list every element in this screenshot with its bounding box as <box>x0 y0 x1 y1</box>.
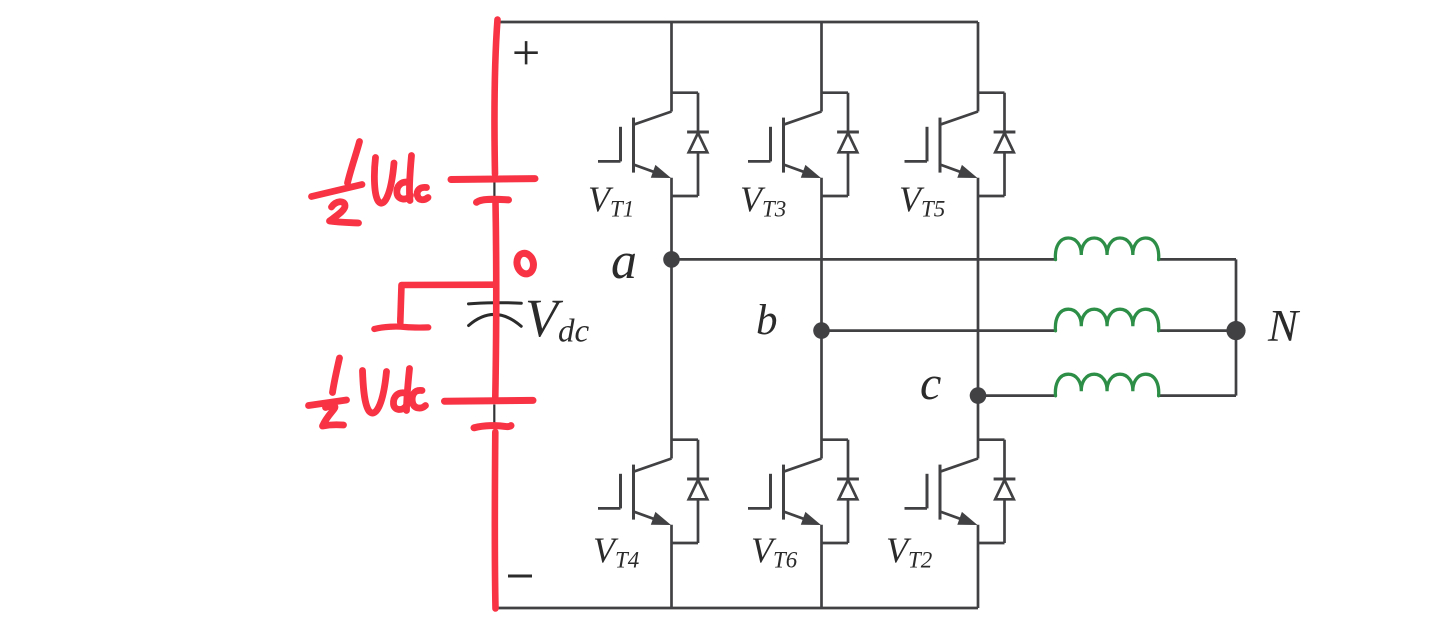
svg-text:b: b <box>756 297 778 344</box>
wire: leg b from upper IGBT emitter through node b to lower IGBT collector <box>820 178 823 459</box>
wire: right vertical joining three phases at node N <box>1235 259 1238 395</box>
wire: top jog from leg to diode of VT6 <box>822 438 849 441</box>
transistor VT4 (IGBT) <box>598 459 672 526</box>
wire: leg b from top rail to upper IGBT collector <box>820 22 823 112</box>
wire: bottom DC- rail <box>496 607 978 610</box>
wire: phase a output from node a to inductor <box>672 258 1056 261</box>
wire: leg c from lower IGBT emitter to bottom rail <box>977 525 980 608</box>
capacitor C1 remnant line (upper DC-link half) <box>493 183 495 197</box>
wire: bottom jog from diode to leg of VT6 <box>822 542 849 545</box>
wire: bottom jog from diode to leg of VT1 <box>672 195 699 198</box>
wire: bottom jog from diode to leg of VT4 <box>672 542 699 545</box>
wire: phase b from inductor to node N <box>1159 329 1236 332</box>
node N (neutral junction dot) <box>1226 321 1245 340</box>
capacitor Vdc (DC-link, curved plate symbol) <box>469 303 522 327</box>
wire: top jog from leg to diode of VT1 <box>672 91 699 94</box>
svg-text:VT5: VT5 <box>899 179 945 222</box>
wire: top jog from leg to diode of VT5 <box>978 91 1005 94</box>
wire: top jog from leg to diode of VT4 <box>672 438 699 441</box>
wire: bottom jog from diode to leg of VT3 <box>822 195 849 198</box>
transistor VT3 (IGBT) <box>748 112 822 179</box>
svg-text:VT1: VT1 <box>588 179 634 222</box>
diode D1 (antiparallel with VT1) <box>687 93 709 196</box>
wire: top jog from leg to diode of VT3 <box>822 91 849 94</box>
svg-text:VT6: VT6 <box>751 530 798 573</box>
label 1/2 Udc (lower half bus voltage, handwritten) <box>309 358 426 426</box>
node 0 (midpoint label, red handwritten) <box>515 252 536 276</box>
node b (junction dot) <box>813 322 830 339</box>
diode D5 (antiparallel with VT5) <box>994 93 1016 196</box>
diode D2 (antiparallel with VT2) <box>994 440 1016 543</box>
wire: leg a from top rail to upper IGBT collector <box>670 22 673 112</box>
wire: bottom jog from diode to leg of VT2 <box>978 542 1005 545</box>
polarity - mark at DC bus bottom <box>508 575 532 578</box>
svg-text:VT4: VT4 <box>593 530 639 573</box>
wire: leg c from upper IGBT emitter through node c to lower IGBT collector <box>977 178 980 459</box>
node a (junction dot) <box>663 251 680 268</box>
svg-text:VT3: VT3 <box>740 179 786 222</box>
diode D4 (antiparallel with VT4) <box>687 440 709 543</box>
wire: leg a from lower IGBT emitter to bottom rail <box>670 525 673 608</box>
capacitor C2 remnant line (lower DC-link half) <box>493 405 495 424</box>
wire: red tap from midpoint 0 to ground <box>400 285 494 322</box>
ground symbol (red handwritten) <box>374 318 428 329</box>
wire: phase a from inductor to right vertical <box>1159 258 1236 261</box>
svg-text:c: c <box>920 357 941 410</box>
wire: phase c from inductor to right vertical <box>1159 394 1236 397</box>
inductor Lb (phase b load) <box>1055 309 1158 331</box>
label 1/2 Udc (upper half bus voltage, handwritten) <box>312 142 429 224</box>
battery B1 short plate (upper 1/2 Udc) <box>477 199 509 202</box>
wire: red DC bus middle segment <box>492 202 500 397</box>
battery B2 long plate (lower 1/2 Udc) <box>445 397 534 405</box>
svg-text:N: N <box>1267 301 1301 351</box>
svg-text:VT2: VT2 <box>886 530 932 573</box>
transistor VT1 (IGBT) <box>598 112 672 179</box>
wire: phase b output from node b to inductor <box>822 329 1056 332</box>
transistor VT2 (IGBT) <box>905 459 979 526</box>
wire: red DC bus upper segment (+ to upper battery) <box>495 20 498 175</box>
wire: red DC bus lower segment (lower battery to -) <box>492 432 499 609</box>
wire: leg c from top rail to upper IGBT collector <box>977 22 980 112</box>
svg-text:a: a <box>611 233 637 290</box>
wire: phase c output from node c to inductor <box>978 394 1056 397</box>
wire: leg b from lower IGBT emitter to bottom rail <box>820 525 823 608</box>
battery B2 short plate (lower 1/2 Udc) <box>474 426 511 428</box>
svg-text:Vdc: Vdc <box>525 288 590 350</box>
diode D3 (antiparallel with VT3) <box>837 93 859 196</box>
transistor VT6 (IGBT) <box>748 459 822 526</box>
wire: leg a from upper IGBT emitter through node a to lower IGBT collector <box>670 178 673 459</box>
wire: bottom jog from diode to leg of VT5 <box>978 195 1005 198</box>
inductor La (phase a load) <box>1055 238 1158 260</box>
wire: top DC+ rail <box>496 21 978 24</box>
polarity + mark at DC bus top <box>514 41 537 64</box>
node c (junction dot) <box>970 387 987 404</box>
inductor Lc (phase c load) <box>1055 374 1158 396</box>
battery B1 long plate (upper 1/2 Udc) <box>451 175 535 183</box>
wire: top jog from leg to diode of VT2 <box>978 438 1005 441</box>
transistor VT5 (IGBT) <box>905 112 979 179</box>
diode D6 (antiparallel with VT6) <box>837 440 859 543</box>
